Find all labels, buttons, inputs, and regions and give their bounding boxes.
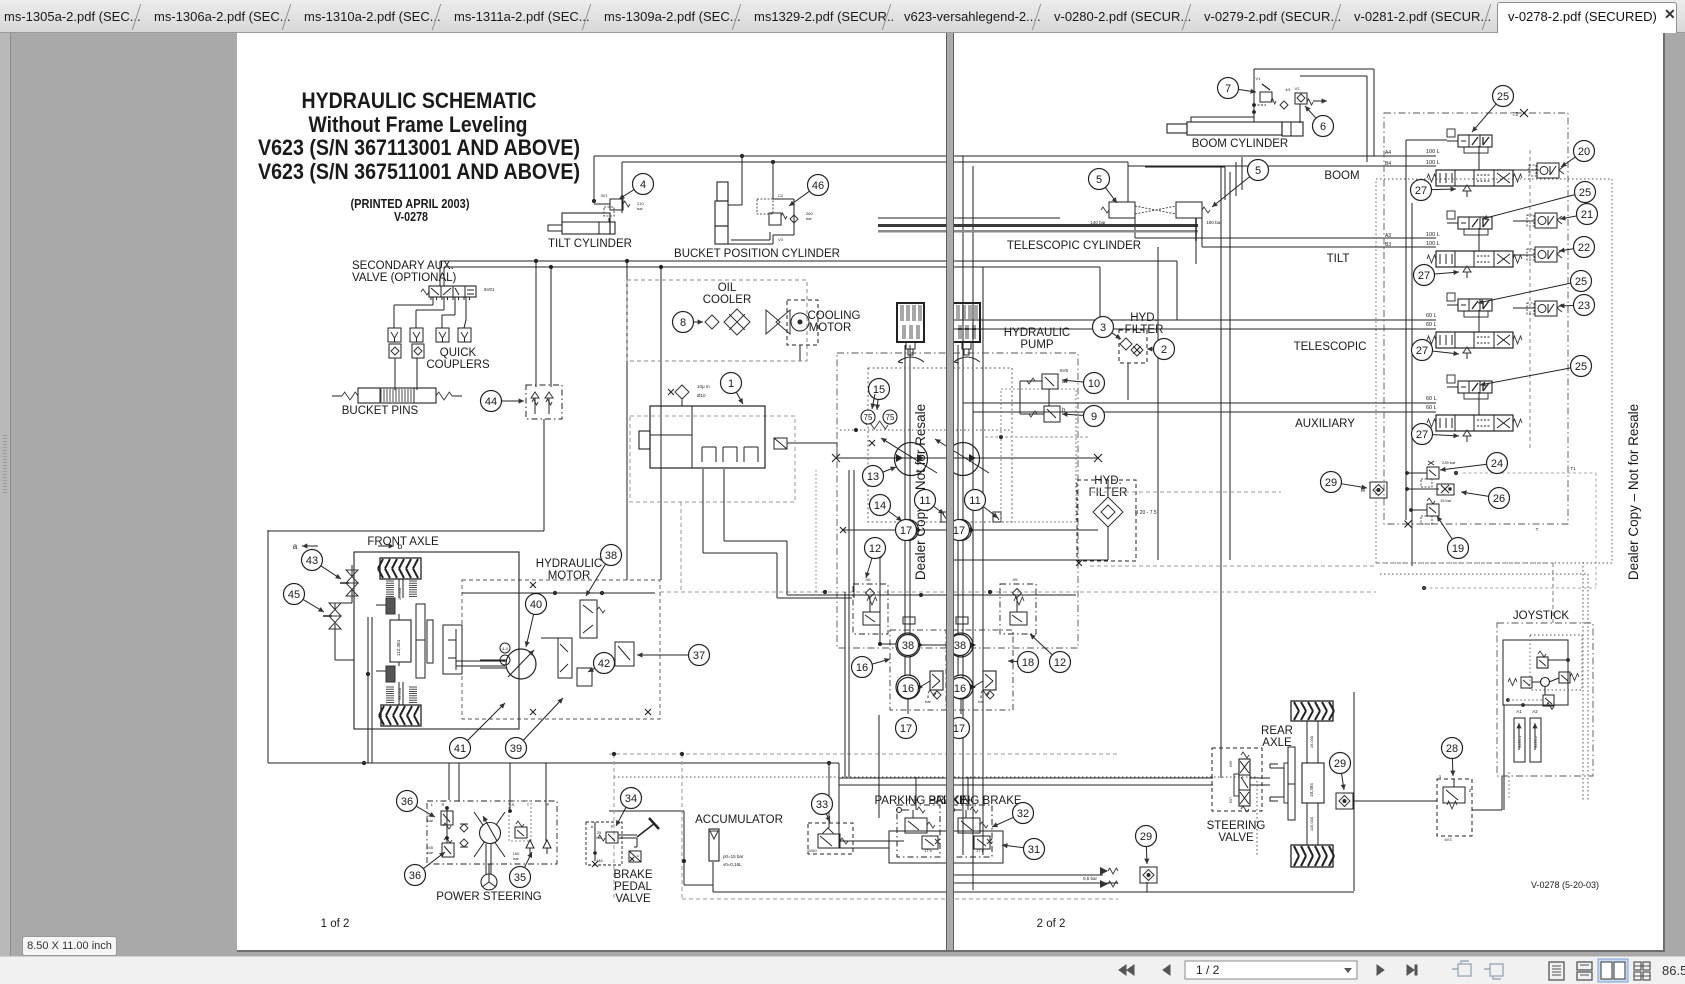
- svg-text:TILT: TILT: [1327, 253, 1350, 265]
- svg-text:18: 18: [1022, 657, 1034, 669]
- svg-text:A1: A1: [1516, 709, 1522, 714]
- svg-text:27: 27: [1418, 270, 1430, 282]
- svg-text:B3: B3: [1385, 242, 1391, 248]
- svg-text:T1: T1: [1570, 466, 1576, 471]
- svg-text:16: 16: [902, 683, 914, 695]
- svg-text:TELESCOPIC: TELESCOPIC: [1294, 341, 1367, 353]
- svg-text:V-0278 (5-20-03): V-0278 (5-20-03): [1531, 880, 1599, 890]
- svg-text:bar: bar: [596, 836, 602, 840]
- svg-text:25: 25: [597, 831, 601, 835]
- svg-text:3V1: 3V1: [600, 193, 608, 198]
- svg-text:b: b: [398, 542, 403, 551]
- svg-text:QUICK: QUICK: [440, 347, 477, 359]
- svg-text:60 L: 60 L: [1426, 322, 1437, 328]
- svg-text:60 L: 60 L: [1426, 313, 1437, 319]
- svg-text:VALVE (OPTIONAL): VALVE (OPTIONAL): [352, 272, 457, 284]
- svg-text:L: L: [431, 802, 434, 807]
- svg-text:10μ m: 10μ m: [697, 384, 710, 389]
- svg-text:115,000: 115,000: [1309, 816, 1314, 831]
- svg-text:4: 4: [640, 179, 646, 191]
- svg-text:T: T: [1536, 527, 1539, 532]
- svg-text:38: 38: [954, 640, 966, 652]
- svg-text:bar: bar: [978, 699, 984, 704]
- svg-text:bar: bar: [925, 699, 931, 704]
- svg-text:BOOM CYLINDER: BOOM CYLINDER: [1192, 138, 1289, 150]
- svg-text:12: 12: [869, 543, 881, 555]
- svg-text:36: 36: [401, 796, 413, 808]
- svg-text:27: 27: [1416, 345, 1428, 357]
- svg-text:LS: LS: [510, 802, 515, 807]
- svg-text:C2: C2: [778, 193, 784, 198]
- svg-text:AUXILIARY: AUXILIARY: [1295, 418, 1355, 430]
- svg-text:100 L: 100 L: [1426, 160, 1440, 166]
- svg-text:Dealer Copy – Not for Resale: Dealer Copy – Not for Resale: [1626, 404, 1641, 580]
- svg-text:TELESCOPIC CYLINDER: TELESCOPIC CYLINDER: [1007, 240, 1141, 252]
- svg-text:17: 17: [900, 525, 912, 537]
- svg-text:112,384: 112,384: [396, 640, 401, 656]
- svg-text:V623 (S/N 367113001 AND ABOVE): V623 (S/N 367113001 AND ABOVE): [258, 135, 580, 160]
- svg-text:REAR: REAR: [1261, 725, 1293, 737]
- svg-text:29: 29: [1140, 831, 1152, 843]
- svg-text:1: 1: [728, 378, 734, 390]
- svg-text:p0=15 bar: p0=15 bar: [723, 854, 744, 859]
- svg-text:PEDAL: PEDAL: [614, 881, 652, 893]
- svg-text:POWER STEERING: POWER STEERING: [436, 891, 541, 903]
- svg-text:BUCKET POSITION CYLINDER: BUCKET POSITION CYLINDER: [674, 248, 840, 260]
- svg-text:25: 25: [1575, 276, 1587, 288]
- svg-text:HYDRAULIC SCHEMATIC: HYDRAULIC SCHEMATIC: [302, 88, 537, 113]
- svg-text:10,384: 10,384: [1309, 783, 1314, 797]
- svg-text:100 L: 100 L: [1426, 241, 1440, 247]
- svg-text:a: a: [293, 542, 298, 551]
- svg-text:16: 16: [856, 662, 868, 674]
- svg-text:6V3: 6V3: [1444, 837, 1452, 842]
- svg-text:Without Frame Leveling: Without Frame Leveling: [309, 112, 528, 137]
- svg-text:17: 17: [953, 723, 965, 735]
- svg-text:MA: MA: [597, 859, 603, 863]
- svg-text:bar: bar: [427, 818, 433, 823]
- svg-text:20: 20: [1578, 146, 1590, 158]
- svg-text:17 b: 17 b: [976, 848, 985, 853]
- svg-text:86.5: 86.5: [1662, 963, 1685, 978]
- svg-text:60 L: 60 L: [1426, 396, 1437, 402]
- svg-text:75: 75: [886, 413, 895, 422]
- svg-text:33: 33: [816, 799, 828, 811]
- svg-text:4-3: 4-3: [502, 646, 509, 651]
- svg-text:V3: V3: [778, 237, 784, 242]
- svg-text:6V9: 6V9: [1229, 761, 1233, 767]
- svg-text:COUPLERS: COUPLERS: [426, 359, 490, 371]
- svg-text:5: 5: [1255, 165, 1261, 177]
- svg-text:OIL: OIL: [718, 282, 737, 294]
- svg-text:12: 12: [1054, 657, 1066, 669]
- svg-text:28: 28: [1446, 743, 1458, 755]
- svg-text:44: 44: [485, 396, 497, 408]
- svg-text:JOYSTICK: JOYSTICK: [1513, 610, 1570, 622]
- svg-text:180 bar: 180 bar: [1206, 220, 1222, 225]
- svg-text:2 of 2: 2 of 2: [1037, 918, 1066, 930]
- svg-text:46: 46: [812, 180, 824, 192]
- svg-text:17: 17: [900, 723, 912, 735]
- svg-text:140 bar: 140 bar: [1090, 220, 1106, 225]
- svg-text:9: 9: [1091, 411, 1097, 423]
- svg-text:6V01: 6V01: [484, 287, 495, 292]
- svg-text:P: P: [547, 802, 550, 807]
- svg-text:19: 19: [1452, 543, 1464, 555]
- svg-text:15 bar: 15 bar: [1440, 498, 1452, 503]
- svg-text:COOLING: COOLING: [807, 310, 860, 322]
- svg-text:29: 29: [1325, 477, 1337, 489]
- svg-text:bar: bar: [513, 856, 519, 861]
- svg-text:16: 16: [954, 683, 966, 695]
- svg-text:5: 5: [1096, 174, 1102, 186]
- svg-text:24: 24: [1491, 458, 1503, 470]
- svg-text:27: 27: [1415, 185, 1427, 197]
- svg-text:9533-1: 9533-1: [1517, 735, 1522, 748]
- svg-text:42: 42: [598, 658, 610, 670]
- svg-text:29: 29: [1334, 758, 1346, 770]
- svg-text:40: 40: [530, 599, 542, 611]
- svg-text:20 bar: 20 bar: [960, 797, 972, 802]
- svg-text:6: 6: [1320, 121, 1326, 133]
- svg-text:25: 25: [1575, 361, 1587, 373]
- svg-text:100 L: 100 L: [1426, 232, 1440, 238]
- svg-text:9533-2: 9533-2: [1533, 735, 1538, 748]
- svg-text:MOTOR: MOTOR: [809, 322, 852, 334]
- svg-text:BOOM: BOOM: [1324, 170, 1359, 182]
- svg-text:B4: B4: [1385, 161, 1391, 167]
- svg-text:1 / 2: 1 / 2: [1196, 963, 1220, 977]
- svg-text:T.2: T.2: [1512, 112, 1519, 118]
- svg-text:6V7: 6V7: [1229, 797, 1233, 803]
- svg-text:38: 38: [503, 658, 508, 663]
- svg-text:v0=0,16L: v0=0,16L: [723, 862, 742, 867]
- svg-text:HYD.: HYD.: [1130, 312, 1157, 324]
- svg-text:H5: H5: [1012, 577, 1018, 582]
- svg-text:21: 21: [1581, 209, 1593, 221]
- svg-text:bar: bar: [806, 216, 812, 221]
- svg-text:bar: bar: [427, 850, 433, 855]
- svg-text:COOLER: COOLER: [703, 294, 752, 306]
- svg-text:2: 2: [1469, 788, 1472, 793]
- svg-text:11: 11: [919, 495, 930, 507]
- svg-text:37: 37: [693, 650, 705, 662]
- svg-text:100 L: 100 L: [1426, 149, 1440, 155]
- svg-text:6V6: 6V6: [1060, 368, 1069, 373]
- svg-text:11: 11: [969, 495, 980, 507]
- svg-text:235 bar: 235 bar: [1442, 460, 1456, 465]
- svg-text:41: 41: [454, 743, 466, 755]
- svg-text:T: T: [527, 802, 530, 807]
- svg-text:39: 39: [510, 743, 522, 755]
- svg-text:38: 38: [605, 550, 617, 562]
- svg-text:A4: A4: [1385, 150, 1391, 156]
- svg-text:Ø10: Ø10: [697, 393, 706, 398]
- svg-text:2: 2: [1161, 344, 1167, 356]
- svg-text:SECONDARY AUX.: SECONDARY AUX.: [352, 260, 454, 272]
- svg-text:20 bar: 20 bar: [906, 797, 918, 802]
- svg-text:VALVE: VALVE: [615, 893, 651, 905]
- svg-text:V-0278: V-0278: [394, 210, 428, 224]
- svg-text:HYDRAULIC: HYDRAULIC: [536, 558, 602, 570]
- svg-text:22: 22: [1578, 242, 1590, 254]
- svg-text:PUMP: PUMP: [1020, 339, 1054, 351]
- svg-text:75: 75: [864, 413, 873, 422]
- svg-text:R: R: [442, 802, 445, 807]
- svg-text:V623 (S/N 367511001 AND ABOVE): V623 (S/N 367511001 AND ABOVE): [258, 159, 580, 184]
- svg-text:31: 31: [1028, 844, 1040, 856]
- svg-text:45: 45: [288, 589, 300, 601]
- svg-text:U: U: [637, 853, 640, 858]
- svg-text:TILT CYLINDER: TILT CYLINDER: [548, 238, 632, 250]
- svg-text:60 L: 60 L: [1426, 405, 1437, 411]
- svg-text:V2: V2: [1295, 86, 1301, 91]
- svg-text:1: 1: [1439, 774, 1442, 779]
- svg-text:16,000: 16,000: [1309, 735, 1314, 748]
- svg-text:A2: A2: [1532, 709, 1538, 714]
- svg-text:0,5 bar: 0,5 bar: [1083, 876, 1098, 881]
- svg-text:6V60: 6V60: [807, 848, 817, 853]
- svg-text:32: 32: [1017, 808, 1029, 820]
- svg-text:43: 43: [306, 555, 318, 567]
- svg-text:23: 23: [1578, 300, 1590, 312]
- svg-text:16,000: 16,000: [397, 587, 402, 600]
- svg-text:P: P: [611, 824, 614, 829]
- svg-text:B 20 - 7.5: B 20 - 7.5: [1135, 510, 1157, 516]
- svg-text:VALVE: VALVE: [1218, 832, 1254, 844]
- svg-text:38: 38: [902, 640, 914, 652]
- svg-text:7: 7: [1225, 83, 1231, 95]
- svg-text:bar: bar: [637, 206, 643, 211]
- svg-text:35: 35: [514, 872, 526, 884]
- svg-text:V1: V1: [1256, 76, 1262, 81]
- svg-text:4/1: 4/1: [1285, 87, 1291, 92]
- svg-text:A3: A3: [1385, 233, 1391, 239]
- svg-text:25: 25: [1497, 91, 1509, 103]
- svg-text:17 b: 17 b: [924, 848, 933, 853]
- svg-text:1 of 2: 1 of 2: [321, 918, 350, 930]
- svg-text:14: 14: [874, 500, 886, 512]
- svg-text:(PRINTED APRIL 2003): (PRINTED APRIL 2003): [351, 197, 470, 211]
- svg-text:34: 34: [625, 793, 637, 805]
- svg-text:17: 17: [953, 525, 965, 537]
- svg-text:ACCUMULATOR: ACCUMULATOR: [695, 814, 783, 826]
- svg-text:8: 8: [680, 317, 686, 329]
- svg-text:36: 36: [409, 870, 421, 882]
- svg-text:27: 27: [1416, 429, 1428, 441]
- svg-text:BRAKE: BRAKE: [614, 869, 653, 881]
- svg-text:10: 10: [1088, 378, 1100, 390]
- svg-text:13: 13: [867, 471, 879, 483]
- svg-text:BUCKET PINS: BUCKET PINS: [342, 405, 419, 417]
- svg-text:26: 26: [1493, 493, 1505, 505]
- svg-text:25: 25: [1579, 187, 1591, 199]
- svg-text:99,000: 99,000: [397, 687, 402, 700]
- svg-text:3: 3: [1100, 322, 1106, 334]
- svg-text:A: A: [591, 824, 594, 829]
